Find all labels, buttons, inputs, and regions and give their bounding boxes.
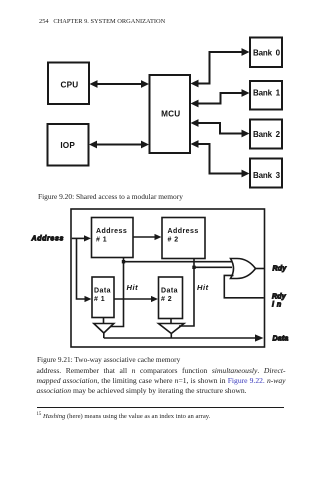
- Address # 1 label: [96, 228, 127, 244]
- Data # 2 box: [159, 277, 183, 319]
- data bus wire: [104, 337, 258, 339]
- wire MCU-Bank1: [196, 93, 244, 104]
- caption figure 9.21: [37, 355, 180, 364]
- svg-text:Bank1: Bank1: [253, 89, 281, 98]
- arrowhead into CPU: [90, 80, 98, 88]
- svg-text:Address: Address: [168, 228, 199, 235]
- arrowhead into Address # 2: [155, 234, 162, 240]
- Address # 2 box: [162, 218, 205, 259]
- tri-state buffer 2: [159, 324, 185, 334]
- arrowhead into Bank 2: [242, 130, 250, 138]
- svg-text:# 1: # 1: [96, 237, 107, 244]
- arrowhead into MCU (bank2 line): [191, 119, 199, 127]
- OR gate U1: [231, 259, 256, 279]
- CPU box: [48, 63, 89, 105]
- svg-text:MCU: MCU: [161, 109, 180, 118]
- outer enclosure box: [71, 209, 265, 347]
- Rdy in net label: [272, 294, 287, 309]
- Data # 1 box: [92, 277, 114, 318]
- Rdy in wire: [224, 275, 263, 297]
- arrowhead into MCU (from IOP): [141, 141, 149, 149]
- svg-text:# 2: # 2: [161, 296, 172, 303]
- Hit 2 junction node: [192, 266, 195, 269]
- wire Data #2 to buffer 2: [170, 319, 172, 324]
- svg-text:IOP: IOP: [60, 141, 75, 150]
- Bank 3 box: [250, 159, 282, 188]
- Bank 1 box: [250, 81, 282, 110]
- wire IOP-MCU: [95, 144, 143, 146]
- IOP box: [48, 124, 89, 166]
- Hit 1 junction node: [122, 260, 125, 263]
- Data # 2 label: [161, 287, 178, 303]
- Address branch wire down to Data # 1: [77, 238, 87, 299]
- Address input wire: [72, 237, 86, 239]
- svg-text:Rdy: Rdy: [273, 266, 288, 273]
- Hit 1 wire down from Address #1: [110, 258, 124, 327]
- running head: [39, 18, 165, 25]
- arrowhead into Data # 2: [151, 296, 158, 302]
- Hit 2 wire down from Address #2: [179, 259, 194, 327]
- svg-text:Address: Address: [31, 236, 65, 243]
- MCU box: [150, 75, 191, 153]
- wire buffer 1 to data bus: [103, 333, 105, 338]
- svg-text:Bank2: Bank2: [253, 130, 281, 139]
- arrowhead into MCU (bank1 line): [191, 100, 199, 108]
- tri-state buffer 1: [94, 324, 114, 334]
- Data # 1 label: [94, 287, 111, 303]
- footnote rule: [37, 407, 284, 408]
- Bank 2 box: [250, 120, 282, 149]
- wire MCU-Bank3: [196, 144, 244, 174]
- arrowhead into MCU (bank3 line): [191, 140, 199, 148]
- arrowhead into Bank 1: [242, 89, 250, 97]
- Address # 2 label: [168, 228, 199, 244]
- svg-text:Hit: Hit: [197, 283, 209, 292]
- body paragraph: [37, 366, 286, 375]
- svg-text:Hit: Hit: [127, 283, 139, 292]
- svg-text:i n: i n: [272, 302, 282, 309]
- arrowhead data bus output: [255, 334, 264, 341]
- arrowhead into Bank 3: [242, 170, 250, 178]
- Hit 1 wire to OR gate: [124, 261, 234, 263]
- wire Address #1 to Address #2: [133, 236, 157, 238]
- OR gate output wire (Rdy): [256, 268, 265, 270]
- Hit 2 wire to OR gate: [194, 266, 232, 268]
- Bank 0 box: [250, 38, 282, 68]
- svg-text:Rdy: Rdy: [272, 294, 287, 301]
- svg-text:CPU: CPU: [60, 81, 78, 90]
- svg-text:Bank3: Bank3: [253, 171, 281, 180]
- wire Data #1 to Data #2: [114, 298, 153, 300]
- arrowhead into Bank 0: [242, 48, 250, 56]
- wire buffer 2 to data bus: [170, 334, 172, 339]
- svg-text:Data: Data: [94, 287, 111, 294]
- svg-text:# 1: # 1: [94, 296, 105, 303]
- footnote: [37, 412, 211, 420]
- wire CPU-MCU: [95, 83, 143, 85]
- svg-text:# 2: # 2: [168, 237, 179, 244]
- svg-text:Data: Data: [273, 335, 289, 342]
- arrowhead into Address # 1: [84, 235, 91, 241]
- svg-text:Data: Data: [161, 287, 178, 294]
- Address # 1 box: [92, 218, 134, 258]
- svg-text:Bank0: Bank0: [253, 49, 281, 58]
- wire Data #1 to buffer 1: [103, 318, 105, 324]
- wire MCU-Bank0: [196, 52, 244, 84]
- arrowhead into Data # 1: [85, 296, 92, 302]
- wire MCU-Bank2: [196, 123, 244, 134]
- arrowhead into MCU (bank0 line): [191, 80, 199, 88]
- arrowhead into MCU (from CPU): [141, 80, 149, 88]
- svg-text:Address: Address: [96, 228, 127, 235]
- caption figure 9.20: [38, 192, 183, 201]
- arrowhead into IOP: [89, 141, 97, 149]
